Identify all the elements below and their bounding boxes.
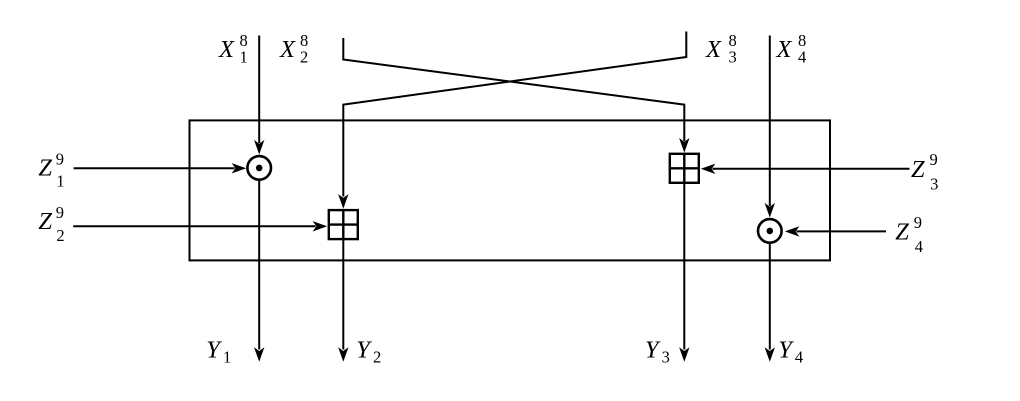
- label X2: [279, 31, 308, 67]
- wire X3 cross to left adder: [338, 32, 686, 209]
- label Z3: [911, 150, 938, 194]
- label X3: [705, 31, 737, 67]
- svg-text:3: 3: [930, 175, 938, 194]
- wire X4 input: [765, 36, 775, 218]
- wire Y2 output: [338, 240, 348, 362]
- label X4: [776, 31, 807, 67]
- svg-text:Y: Y: [645, 337, 661, 364]
- svg-text:X: X: [279, 36, 296, 63]
- svg-text:X: X: [218, 36, 235, 63]
- label Z2: [38, 203, 64, 245]
- wire Z3 key input: [701, 164, 910, 174]
- svg-text:X: X: [776, 36, 793, 63]
- wire Y3 output: [679, 183, 689, 362]
- label Y3: [645, 337, 670, 367]
- wire Y4 output: [765, 244, 775, 362]
- label Y4: [778, 337, 803, 367]
- svg-text:4: 4: [915, 237, 923, 256]
- label Y1: [206, 337, 231, 367]
- svg-text:2: 2: [56, 226, 64, 245]
- svg-text:9: 9: [930, 150, 938, 169]
- svg-text:9: 9: [56, 203, 64, 222]
- label Y2: [356, 337, 381, 367]
- multiplier M1 (circle-dot left): [247, 156, 271, 180]
- multiplier M4 (circle-dot right): [758, 219, 782, 243]
- svg-text:1: 1: [223, 348, 231, 367]
- svg-text:9: 9: [914, 213, 922, 232]
- wire Z2 key input: [73, 221, 327, 231]
- svg-text:3: 3: [662, 348, 670, 367]
- svg-text:Z: Z: [911, 156, 925, 183]
- svg-text:Y: Y: [206, 337, 222, 364]
- svg-text:1: 1: [56, 171, 64, 190]
- svg-text:Z: Z: [38, 154, 52, 181]
- wire Z4 key input: [785, 226, 886, 236]
- wire X2 cross to right adder: [343, 38, 689, 153]
- adder A2 (box-plus left): [329, 210, 358, 239]
- svg-text:X: X: [705, 36, 722, 63]
- svg-text:4: 4: [795, 348, 803, 367]
- wire Y1 output: [254, 181, 264, 362]
- adder A3 (box-plus right): [670, 154, 699, 183]
- svg-text:4: 4: [798, 48, 806, 67]
- output transformation box: [190, 120, 831, 260]
- svg-text:9: 9: [56, 149, 64, 168]
- svg-text:2: 2: [373, 348, 381, 367]
- wire Z1 key input: [74, 163, 247, 173]
- svg-text:1: 1: [240, 48, 248, 67]
- svg-text:2: 2: [300, 48, 308, 67]
- label Z4: [895, 213, 923, 256]
- svg-text:3: 3: [729, 48, 737, 67]
- svg-text:Y: Y: [778, 337, 794, 364]
- svg-text:Z: Z: [895, 218, 909, 245]
- wire X1 input: [254, 36, 264, 155]
- label Z1: [38, 149, 64, 190]
- label X1: [218, 31, 248, 67]
- svg-text:Y: Y: [356, 337, 372, 364]
- svg-text:Z: Z: [38, 208, 52, 235]
